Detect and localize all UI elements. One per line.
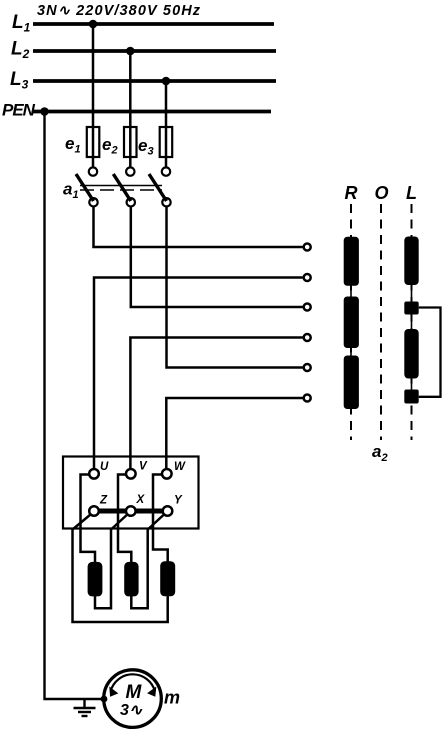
wire PEN bus — [33, 110, 271, 114]
switch a1 pole 1 bottom contact — [89, 198, 97, 206]
motor rotation arrow — [109, 674, 156, 696]
switch a1 pole 3 top contact — [162, 167, 170, 175]
wire W to winding 3 top — [153, 475, 168, 563]
wire terminal 4 to V — [130, 338, 303, 470]
cam a2 L contact block S1 — [404, 302, 418, 315]
cam switch a2 column O axis — [380, 204, 382, 440]
svg-text:Y: Y — [174, 495, 183, 507]
terminal U — [89, 469, 99, 479]
svg-text:PEN: PEN — [2, 101, 36, 120]
winding 2 — [124, 562, 138, 597]
cam switch a2 column R axis — [350, 204, 352, 440]
wire L1 bus — [33, 22, 274, 26]
motor m body — [104, 670, 162, 728]
svg-text:3∿: 3∿ — [120, 702, 143, 719]
fuse e2 — [124, 127, 137, 157]
svg-text:O: O — [375, 183, 389, 203]
cam a2 R contact bar 2 — [344, 297, 359, 349]
switch a1 pole 3 bottom contact — [162, 198, 170, 206]
terminal 3 — [304, 304, 311, 311]
cam a2 R bar links — [350, 284, 352, 357]
svg-text:L: L — [406, 183, 417, 203]
wire pole3 to terminal 5 — [167, 207, 304, 368]
svg-text:R: R — [345, 183, 358, 203]
terminal 4 — [304, 334, 311, 341]
cam a2 L contact bar 2 — [404, 329, 418, 379]
svg-text:W: W — [174, 461, 186, 473]
junction L3 — [162, 77, 171, 86]
terminal X — [126, 506, 136, 516]
wire X to winding 1 bottom — [95, 515, 127, 609]
terminal 2 — [304, 274, 311, 281]
junction L1 — [89, 20, 98, 29]
cam a2 R contact bar 3 — [344, 356, 359, 410]
switch a1 pole 2 bottom contact — [127, 198, 135, 206]
junction L2 — [126, 47, 135, 56]
cam a2 bridge wire — [419, 308, 441, 397]
wire terminal 2 to U — [94, 278, 304, 470]
svg-text:M: M — [126, 682, 143, 703]
svg-text:U: U — [100, 461, 109, 473]
wire terminal 6 to W — [166, 398, 303, 469]
terminal V — [126, 469, 136, 479]
cam a2 R contact bar 1 — [344, 237, 359, 286]
terminal 6 — [304, 395, 311, 402]
svg-text:Z: Z — [99, 495, 108, 507]
svg-text:3N∿ 220V/380V 50Hz: 3N∿ 220V/380V 50Hz — [37, 3, 201, 19]
cam a2 L bar links — [411, 283, 413, 391]
wire Y to winding 2 bottom — [131, 515, 164, 609]
ground — [74, 699, 96, 716]
winding 1 — [88, 562, 103, 597]
star link bar Z-X-Y — [95, 509, 167, 514]
svg-text:X: X — [136, 494, 146, 506]
switch a1 pole 1 blade — [76, 174, 94, 201]
wire V to winding 2 top — [118, 475, 131, 563]
wire L3 bus — [33, 79, 276, 83]
fuse e1 — [87, 127, 100, 157]
junction PEN — [40, 107, 49, 116]
svg-text:V: V — [139, 461, 148, 473]
wire pole2 to terminal 3 — [131, 207, 304, 308]
wire L2 bus — [33, 49, 276, 53]
switch a1 linkage — [80, 186, 162, 191]
terminal 1 — [304, 244, 311, 251]
terminal 5 — [304, 364, 311, 371]
switch a1 pole 1 top contact — [89, 167, 97, 175]
wire L2 to fuse e2 — [129, 51, 132, 167]
wire pole1 to terminal 1 — [94, 207, 304, 248]
wire Z to winding 3 bottom — [73, 515, 168, 623]
fuse e3 — [160, 127, 173, 157]
terminal W — [162, 469, 172, 479]
switch a1 pole 3 blade — [149, 174, 167, 201]
wire U to winding 1 top — [81, 475, 96, 563]
switch a1 pole 2 top contact — [126, 167, 134, 175]
cam a2 L contact block S2 — [404, 390, 418, 404]
winding 3 — [160, 561, 175, 596]
terminal box — [63, 457, 199, 529]
wire PEN to motor — [45, 112, 104, 700]
svg-text:m: m — [164, 688, 180, 708]
wire L3 to fuse e3 — [165, 81, 168, 167]
terminal Y — [163, 506, 173, 516]
terminal Z — [89, 506, 99, 516]
junction at motor — [101, 696, 108, 703]
wire L1 to fuse e1 — [92, 24, 95, 167]
cam a2 L contact bar 1 — [404, 237, 418, 286]
switch a1 pole 2 blade — [113, 174, 131, 201]
cam switch a2 column L axis — [411, 204, 413, 440]
